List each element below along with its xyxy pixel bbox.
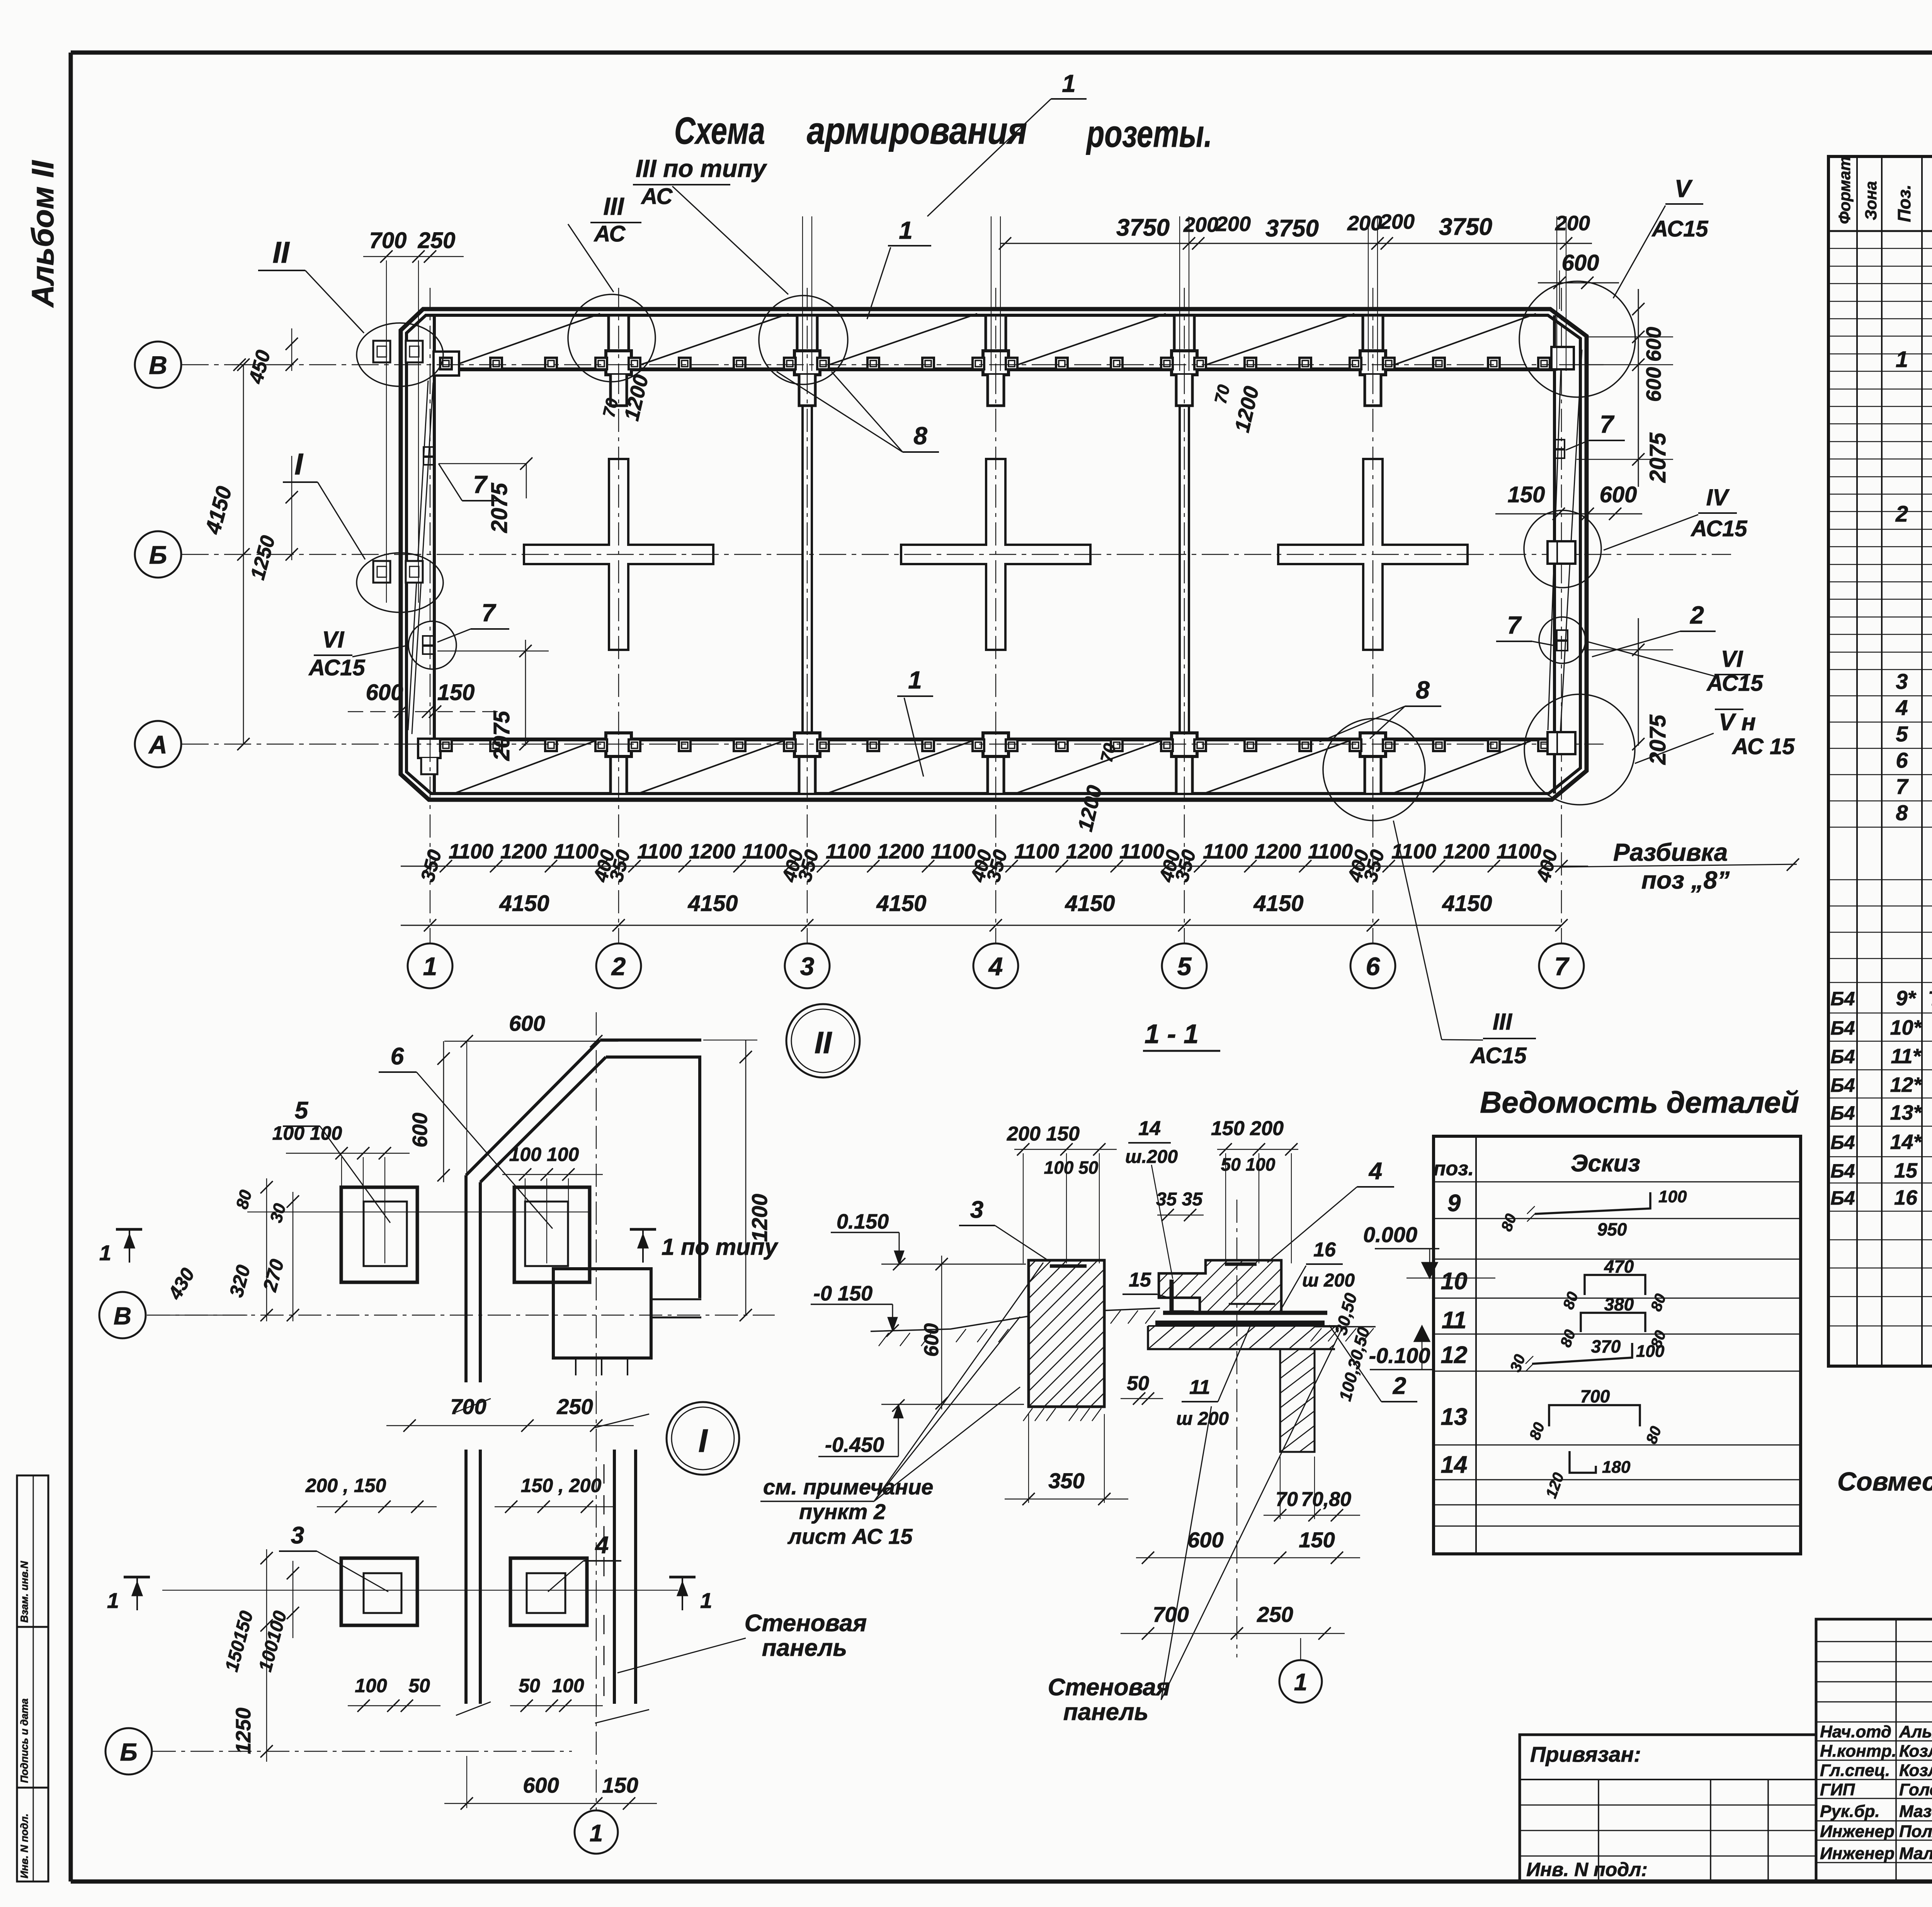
callout circle IV right [1524,510,1601,588]
grid circle Б [135,531,181,578]
bottom dimension chain row2 4150 [401,925,1561,926]
svg-text:1200: 1200 [1066,840,1112,863]
svg-text:I: I [294,447,303,481]
svg-text:1100: 1100 [1497,840,1541,863]
svg-text:АС15: АС15 [1469,1043,1527,1068]
right wall inner line [1553,315,1556,794]
svg-text:Поз.: Поз. [1894,185,1914,222]
svg-text:600: 600 [509,1011,545,1035]
svg-text:Малахова: Малахова [1899,1844,1932,1863]
svg-text:6: 6 [1366,952,1381,981]
svg-text:380: 380 [1604,1294,1634,1314]
svg-text:Рук.бр.: Рук.бр. [1820,1802,1880,1821]
svg-text:Нач.отд: Нач.отд [1820,1722,1891,1741]
svg-text:Разбивка: Разбивка [1613,838,1728,866]
svg-text:16: 16 [1894,1186,1918,1209]
svg-text:Ведомость деталей: Ведомость деталей [1480,1085,1799,1119]
embedded plate 3 in detail [341,1558,417,1625]
svg-text:3: 3 [291,1522,304,1549]
svg-text:ш.200: ш.200 [1125,1147,1178,1167]
detail grid circle 1 [575,1810,618,1854]
callout oval I on left wall [357,553,443,612]
axis row Б dash-dot [182,554,1731,555]
svg-text:1200: 1200 [878,840,924,863]
sketch pos 10 bracket [1585,1275,1645,1295]
svg-text:Стеновая: Стеновая [745,1610,867,1637]
axis row А dash-dot [182,744,1604,745]
svg-text:Б4: Б4 [1830,1017,1855,1039]
svg-text:1: 1 [700,1588,712,1613]
svg-text:700: 700 [450,1394,486,1419]
embedded block top right corner [1551,347,1574,369]
svg-text:4: 4 [1895,695,1908,720]
vertical column axes [430,288,430,371]
svg-text:Б4: Б4 [1830,1046,1855,1067]
svg-text:Б: Б [149,540,167,569]
full-height partitions at axes 3 and 5 [801,406,804,733]
detail axis Б [153,1751,572,1752]
svg-text:Полякова: Полякова [1899,1822,1932,1841]
svg-text:В: В [149,351,167,379]
embedded block bottom right wall [1548,732,1575,754]
svg-text:3: 3 [1896,669,1908,693]
plate pos.7 left wall lower with circle VI [408,621,456,669]
detail axis B [147,1315,775,1316]
svg-text:35 35: 35 35 [1156,1189,1203,1210]
svg-text:V н: V н [1719,709,1756,736]
svg-text:1: 1 [1062,70,1076,97]
svg-text:12*: 12* [1890,1073,1922,1096]
rosette slab section outline [1159,1260,1281,1312]
svg-text:III: III [1493,1009,1512,1035]
svg-text:розеты.: розеты. [1086,112,1212,155]
svg-text:1100: 1100 [742,840,787,863]
svg-text:IV: IV [1706,484,1730,510]
detail grid circle Б [105,1728,152,1774]
svg-text:1100: 1100 [554,840,599,863]
svg-text:100 50: 100 50 [1044,1157,1099,1178]
svg-text:7: 7 [1600,410,1615,438]
svg-text:1: 1 [590,1820,603,1847]
svg-text:Н.контр.: Н.контр. [1820,1742,1896,1761]
plan outer outline with chamfered corners [401,309,1587,800]
svg-text:600: 600 [920,1323,943,1357]
svg-text:Подпись и дата: Подпись и дата [19,1698,30,1783]
section circle I [667,1402,739,1475]
svg-text:150: 150 [437,680,475,705]
left wall inner line [433,315,436,794]
svg-text:15: 15 [1894,1159,1918,1182]
svg-text:4150: 4150 [687,891,738,916]
svg-text:50: 50 [408,1675,430,1696]
axis row B dash-dot [182,364,1604,365]
svg-text:600: 600 [366,680,403,705]
svg-text:АС15: АС15 [1706,671,1763,696]
svg-text:1100: 1100 [449,840,493,863]
svg-text:Б4: Б4 [1830,1102,1855,1124]
band mesh diagonals [445,314,600,369]
svg-text:5: 5 [1896,722,1908,746]
embedded plates in oval I [373,561,390,583]
svg-text:1200: 1200 [1443,840,1490,863]
specification table [1828,156,1932,1366]
svg-text:1 - 1: 1 - 1 [1145,1019,1199,1049]
left wall panel block hatched [889,1260,1407,1407]
callout circle III type at axis 3 [759,296,848,384]
svg-text:1200: 1200 [689,840,735,863]
svg-text:180: 180 [1602,1458,1631,1477]
axis line of column section [1236,1200,1237,1657]
svg-text:6: 6 [391,1043,404,1070]
svg-text:370: 370 [1591,1336,1621,1356]
svg-text:470: 470 [1604,1256,1634,1276]
svg-text:4: 4 [595,1532,609,1559]
svg-text:4: 4 [988,952,1003,981]
bottom dimension chain row1 [401,866,1588,867]
svg-text:13*: 13* [1890,1101,1922,1124]
ground line at panel [871,1316,1028,1331]
svg-text:4150: 4150 [1065,891,1115,916]
svg-text:700: 700 [1580,1386,1610,1406]
svg-text:см. примечание: см. примечание [763,1475,933,1499]
svg-text:1: 1 [423,952,437,981]
svg-text:14: 14 [1138,1117,1161,1140]
embedded plates pos.8 on axis B and A [440,358,452,369]
svg-text:4150: 4150 [1253,891,1303,916]
svg-text:1: 1 [1294,1669,1307,1696]
svg-text:Инженер: Инженер [1820,1844,1895,1863]
bent plate pos 15 [1170,1280,1174,1313]
svg-text:0.150: 0.150 [837,1210,889,1233]
plan inner outline [406,315,1580,794]
svg-text:200: 200 [1183,213,1218,236]
svg-text:600: 600 [1187,1528,1223,1552]
sketch pos 14 angle [1570,1451,1596,1473]
svg-text:II: II [815,1025,832,1060]
svg-text:600: 600 [523,1773,559,1797]
svg-text:13: 13 [1441,1404,1468,1430]
callout oval II on left wall [357,323,443,386]
wall mesh diagonals right wall [1548,363,1561,730]
embedded plate 6 in detail [514,1187,590,1282]
grid circles 1-7 [408,943,452,988]
svg-text:100: 100 [1636,1342,1665,1361]
sketch pos 9 rod [1535,1192,1650,1214]
svg-text:16: 16 [1313,1239,1336,1261]
svg-text:Привязан:: Привязан: [1530,1742,1641,1766]
svg-text:4: 4 [1368,1158,1382,1185]
svg-text:11: 11 [1442,1307,1466,1334]
svg-text:8: 8 [1896,801,1908,825]
top dimension chain 3750/200 [802,216,803,371]
svg-text:Гл.спец.: Гл.спец. [1820,1761,1890,1780]
привязан table [1520,1735,1816,1882]
svg-text:250: 250 [1257,1602,1293,1627]
svg-text:Альбом II: Альбом II [26,160,60,308]
svg-text:600: 600 [408,1113,432,1147]
bent plates pos 11 and 16 horizontal [1163,1311,1327,1315]
svg-text:14*: 14* [1890,1130,1922,1154]
svg-text:7: 7 [1896,774,1909,799]
svg-text:-0.450: -0.450 [825,1433,884,1457]
svg-text:7: 7 [481,599,497,627]
svg-text:9: 9 [1447,1190,1461,1217]
svg-text:700: 700 [369,228,407,253]
svg-text:600: 600 [1600,482,1637,507]
svg-text:II: II [272,235,290,269]
svg-text:2075: 2075 [1645,432,1670,483]
svg-text:А: А [148,730,167,759]
detail II wall corner chamfer [466,1040,600,1175]
svg-text:1: 1 [99,1241,111,1265]
svg-text:150 , 200: 150 , 200 [521,1475,602,1496]
svg-text:2: 2 [1393,1373,1406,1399]
svg-text:3750: 3750 [1265,215,1319,242]
detail grid circle В [99,1292,146,1338]
svg-text:АС: АС [594,221,626,246]
sketch pos 11 bracket [1581,1313,1645,1332]
svg-text:Эскиз: Эскиз [1571,1150,1640,1177]
callout circle at axis 6 bottom [1323,719,1425,821]
embedded plate 5 in detail [341,1187,417,1282]
svg-text:11: 11 [1189,1376,1210,1399]
svg-text:Б4: Б4 [1830,1132,1855,1153]
svg-text:100: 100 [355,1675,387,1696]
svg-text:8: 8 [913,422,927,450]
svg-text:5: 5 [295,1097,309,1124]
svg-text:250: 250 [556,1394,593,1419]
svg-text:1200: 1200 [500,840,547,863]
vedomost table [1434,1136,1801,1554]
sketch pos 12 rod [1532,1343,1632,1364]
svg-text:Стеновая: Стеновая [1048,1674,1170,1701]
svg-text:Козловичер: Козловичер [1899,1761,1932,1780]
svg-text:50 100: 50 100 [1221,1154,1276,1174]
svg-text:50: 50 [1127,1372,1149,1395]
svg-text:ш 200: ш 200 [1176,1409,1229,1429]
svg-text:600: 600 [1642,327,1665,362]
svg-text:200: 200 [1379,210,1415,233]
svg-text:Б4: Б4 [1830,1160,1855,1182]
svg-text:2075: 2075 [489,710,514,761]
svg-text:11*: 11* [1891,1045,1922,1068]
plate pos.7 right wall upper [1554,440,1565,449]
callout circle III at axis 2 [568,294,655,382]
svg-text:2075: 2075 [487,483,512,533]
svg-text:200: 200 [1216,212,1251,236]
svg-text:поз.: поз. [1434,1157,1474,1180]
svg-text:Формат: Формат [1835,156,1854,224]
embedded plate 4 in detail [510,1558,587,1625]
svg-text:Голодина: Голодина [1899,1780,1932,1799]
svg-text:10*: 10* [1890,1016,1922,1039]
svg-text:пункт 2: пункт 2 [799,1499,886,1524]
svg-text:-0.100: -0.100 [1369,1343,1430,1368]
break marks on walls [456,1399,491,1412]
svg-text:600: 600 [1642,367,1665,402]
plate pos.7 left wall upper [423,447,434,456]
section mark 1 по типу [630,1228,656,1231]
svg-text:4150: 4150 [499,891,549,916]
svg-text:ш 200: ш 200 [1302,1270,1355,1291]
svg-text:12: 12 [1441,1342,1468,1368]
svg-text:2: 2 [1895,501,1908,527]
bottom shelf line [434,738,1554,741]
svg-text:АС 15: АС 15 [1731,734,1795,759]
svg-text:50: 50 [519,1675,540,1696]
svg-text:1: 1 [908,666,922,694]
svg-text:В: В [114,1302,131,1330]
svg-text:200 150: 200 150 [1007,1123,1080,1145]
svg-text:панель: панель [1063,1699,1148,1725]
projection lines above section [1023,1153,1024,1263]
svg-text:армирования: армирования [807,109,1027,152]
svg-text:-0 150: -0 150 [813,1282,872,1305]
svg-text:250: 250 [418,228,456,253]
svg-text:6: 6 [1896,748,1908,772]
column partition stubs on top band [609,315,629,351]
svg-text:4150: 4150 [1442,891,1492,916]
svg-text:АС: АС [641,184,673,209]
svg-text:III: III [603,192,624,220]
detail axis 1 vertical [596,1012,597,1810]
callout circle V top right [1519,281,1635,397]
svg-text:700: 700 [1153,1602,1189,1627]
callout circle VH bottom right [1524,694,1635,805]
svg-text:3: 3 [970,1197,983,1223]
column partition stubs on bottom band [611,756,627,793]
svg-text:III по типу: III по типу [636,155,767,182]
svg-text:панель: панель [762,1635,847,1661]
sheet border frame [71,51,1932,55]
svg-text:ГИП: ГИП [1820,1780,1855,1799]
svg-text:4150: 4150 [876,891,926,916]
svg-text:Инженер: Инженер [1820,1822,1895,1841]
svg-text:5: 5 [1177,952,1192,981]
detail wall verticals lower [464,1450,468,1704]
svg-text:7: 7 [473,471,488,498]
top shelf line [434,367,1554,371]
svg-text:1200: 1200 [1255,840,1301,863]
svg-text:Козловичер: Козловичер [1899,1742,1932,1761]
svg-text:Мазо: Мазо [1899,1802,1932,1821]
svg-text:I: I [698,1423,708,1459]
svg-text:V: V [1675,175,1693,202]
grid circle 1 of section [1279,1660,1322,1703]
sketch pos 13 bracket [1549,1405,1640,1426]
detail thin horizontals [247,1212,591,1212]
svg-text:7: 7 [1554,952,1570,981]
svg-text:200 , 150: 200 , 150 [305,1475,386,1496]
section mark 1 right of plate 4 [669,1576,696,1579]
section mark 1 upper left [116,1228,142,1231]
svg-text:Инв. N подл.: Инв. N подл. [19,1814,30,1878]
wall mesh diagonals left wall [408,381,428,730]
cross columns in plan [524,459,713,650]
svg-text:200: 200 [1347,212,1382,235]
svg-text:ТП 901-Б- 91с.86 -АС14 ,15: ТП 901-Б- 91с.86 -АС14 ,15 [1928,987,1932,1010]
svg-text:350: 350 [1048,1468,1084,1493]
ground line right of foundation [1315,1326,1376,1327]
svg-text:14: 14 [1441,1451,1468,1478]
svg-text:3: 3 [800,952,815,981]
svg-text:100: 100 [552,1675,584,1696]
svg-text:Б4: Б4 [1830,1074,1855,1096]
svg-text:2: 2 [611,952,626,981]
personnel table [1816,1619,1932,1882]
svg-text:1100: 1100 [1308,840,1353,863]
svg-text:АС15: АС15 [308,655,365,680]
svg-text:10: 10 [1441,1268,1468,1295]
svg-text:1100: 1100 [1203,840,1248,863]
svg-text:1100: 1100 [826,840,871,863]
embedded plates in oval II [373,341,390,362]
svg-text:поз „8”: поз „8” [1641,866,1730,894]
svg-text:Зона: Зона [1862,181,1880,220]
svg-text:лист АС 15: лист АС 15 [787,1524,913,1548]
svg-text:Б: Б [120,1738,137,1766]
left end blocks of bands [434,352,459,376]
block at plate 6 [553,1269,651,1358]
section circle II [786,1004,860,1078]
plate pos.7 right wall lower with circle [1539,617,1585,663]
svg-text:150: 150 [1508,482,1545,507]
margin stamp strip [17,1475,48,1882]
svg-text:950: 950 [1597,1219,1627,1239]
wall below foundation hatched [1280,1349,1315,1452]
svg-text:9*: 9* [1896,987,1917,1010]
svg-text:100 100: 100 100 [509,1144,579,1165]
svg-text:АС15: АС15 [1690,516,1747,541]
svg-text:1 по типу: 1 по типу [662,1234,779,1260]
svg-text:70,80: 70,80 [1301,1488,1351,1511]
foundation under slab [1148,1326,1335,1349]
detail II wall verticals upper [464,1175,468,1382]
svg-text:70: 70 [1276,1488,1298,1511]
svg-text:1: 1 [1896,347,1908,372]
svg-text:Б4: Б4 [1830,988,1855,1010]
svg-text:15: 15 [1129,1269,1151,1291]
embedded block IV right wall [1548,541,1575,564]
svg-text:2: 2 [1690,601,1704,629]
svg-text:1: 1 [107,1588,119,1613]
svg-text:Альтшуллер: Альтшуллер [1899,1722,1932,1741]
svg-text:Совместно: Совместно [1837,1467,1932,1496]
svg-text:1100: 1100 [1119,840,1164,863]
svg-text:8: 8 [1416,676,1430,704]
svg-text:1100: 1100 [637,840,682,863]
slab top plate notch [1225,1263,1257,1266]
svg-text:1: 1 [899,216,913,244]
svg-text:Инв. N подл:: Инв. N подл: [1526,1859,1648,1880]
svg-text:600: 600 [1562,250,1599,275]
svg-text:3750: 3750 [1116,214,1170,241]
svg-text:VI: VI [1721,646,1743,672]
soil hatch under panel [1023,1408,1032,1421]
svg-text:3750: 3750 [1439,214,1492,240]
svg-text:АС15: АС15 [1651,216,1708,241]
svg-text:Схема: Схема [674,109,765,152]
svg-text:1250: 1250 [232,1708,255,1754]
svg-text:200: 200 [1555,212,1590,235]
svg-text:150: 150 [1299,1528,1335,1552]
section mark 1 lower left [124,1576,150,1579]
svg-text:Б4: Б4 [1830,1187,1855,1209]
svg-text:1100: 1100 [1014,840,1059,863]
grid circle В [135,342,181,388]
grid circle А [135,721,181,767]
svg-text:VI: VI [322,627,345,653]
